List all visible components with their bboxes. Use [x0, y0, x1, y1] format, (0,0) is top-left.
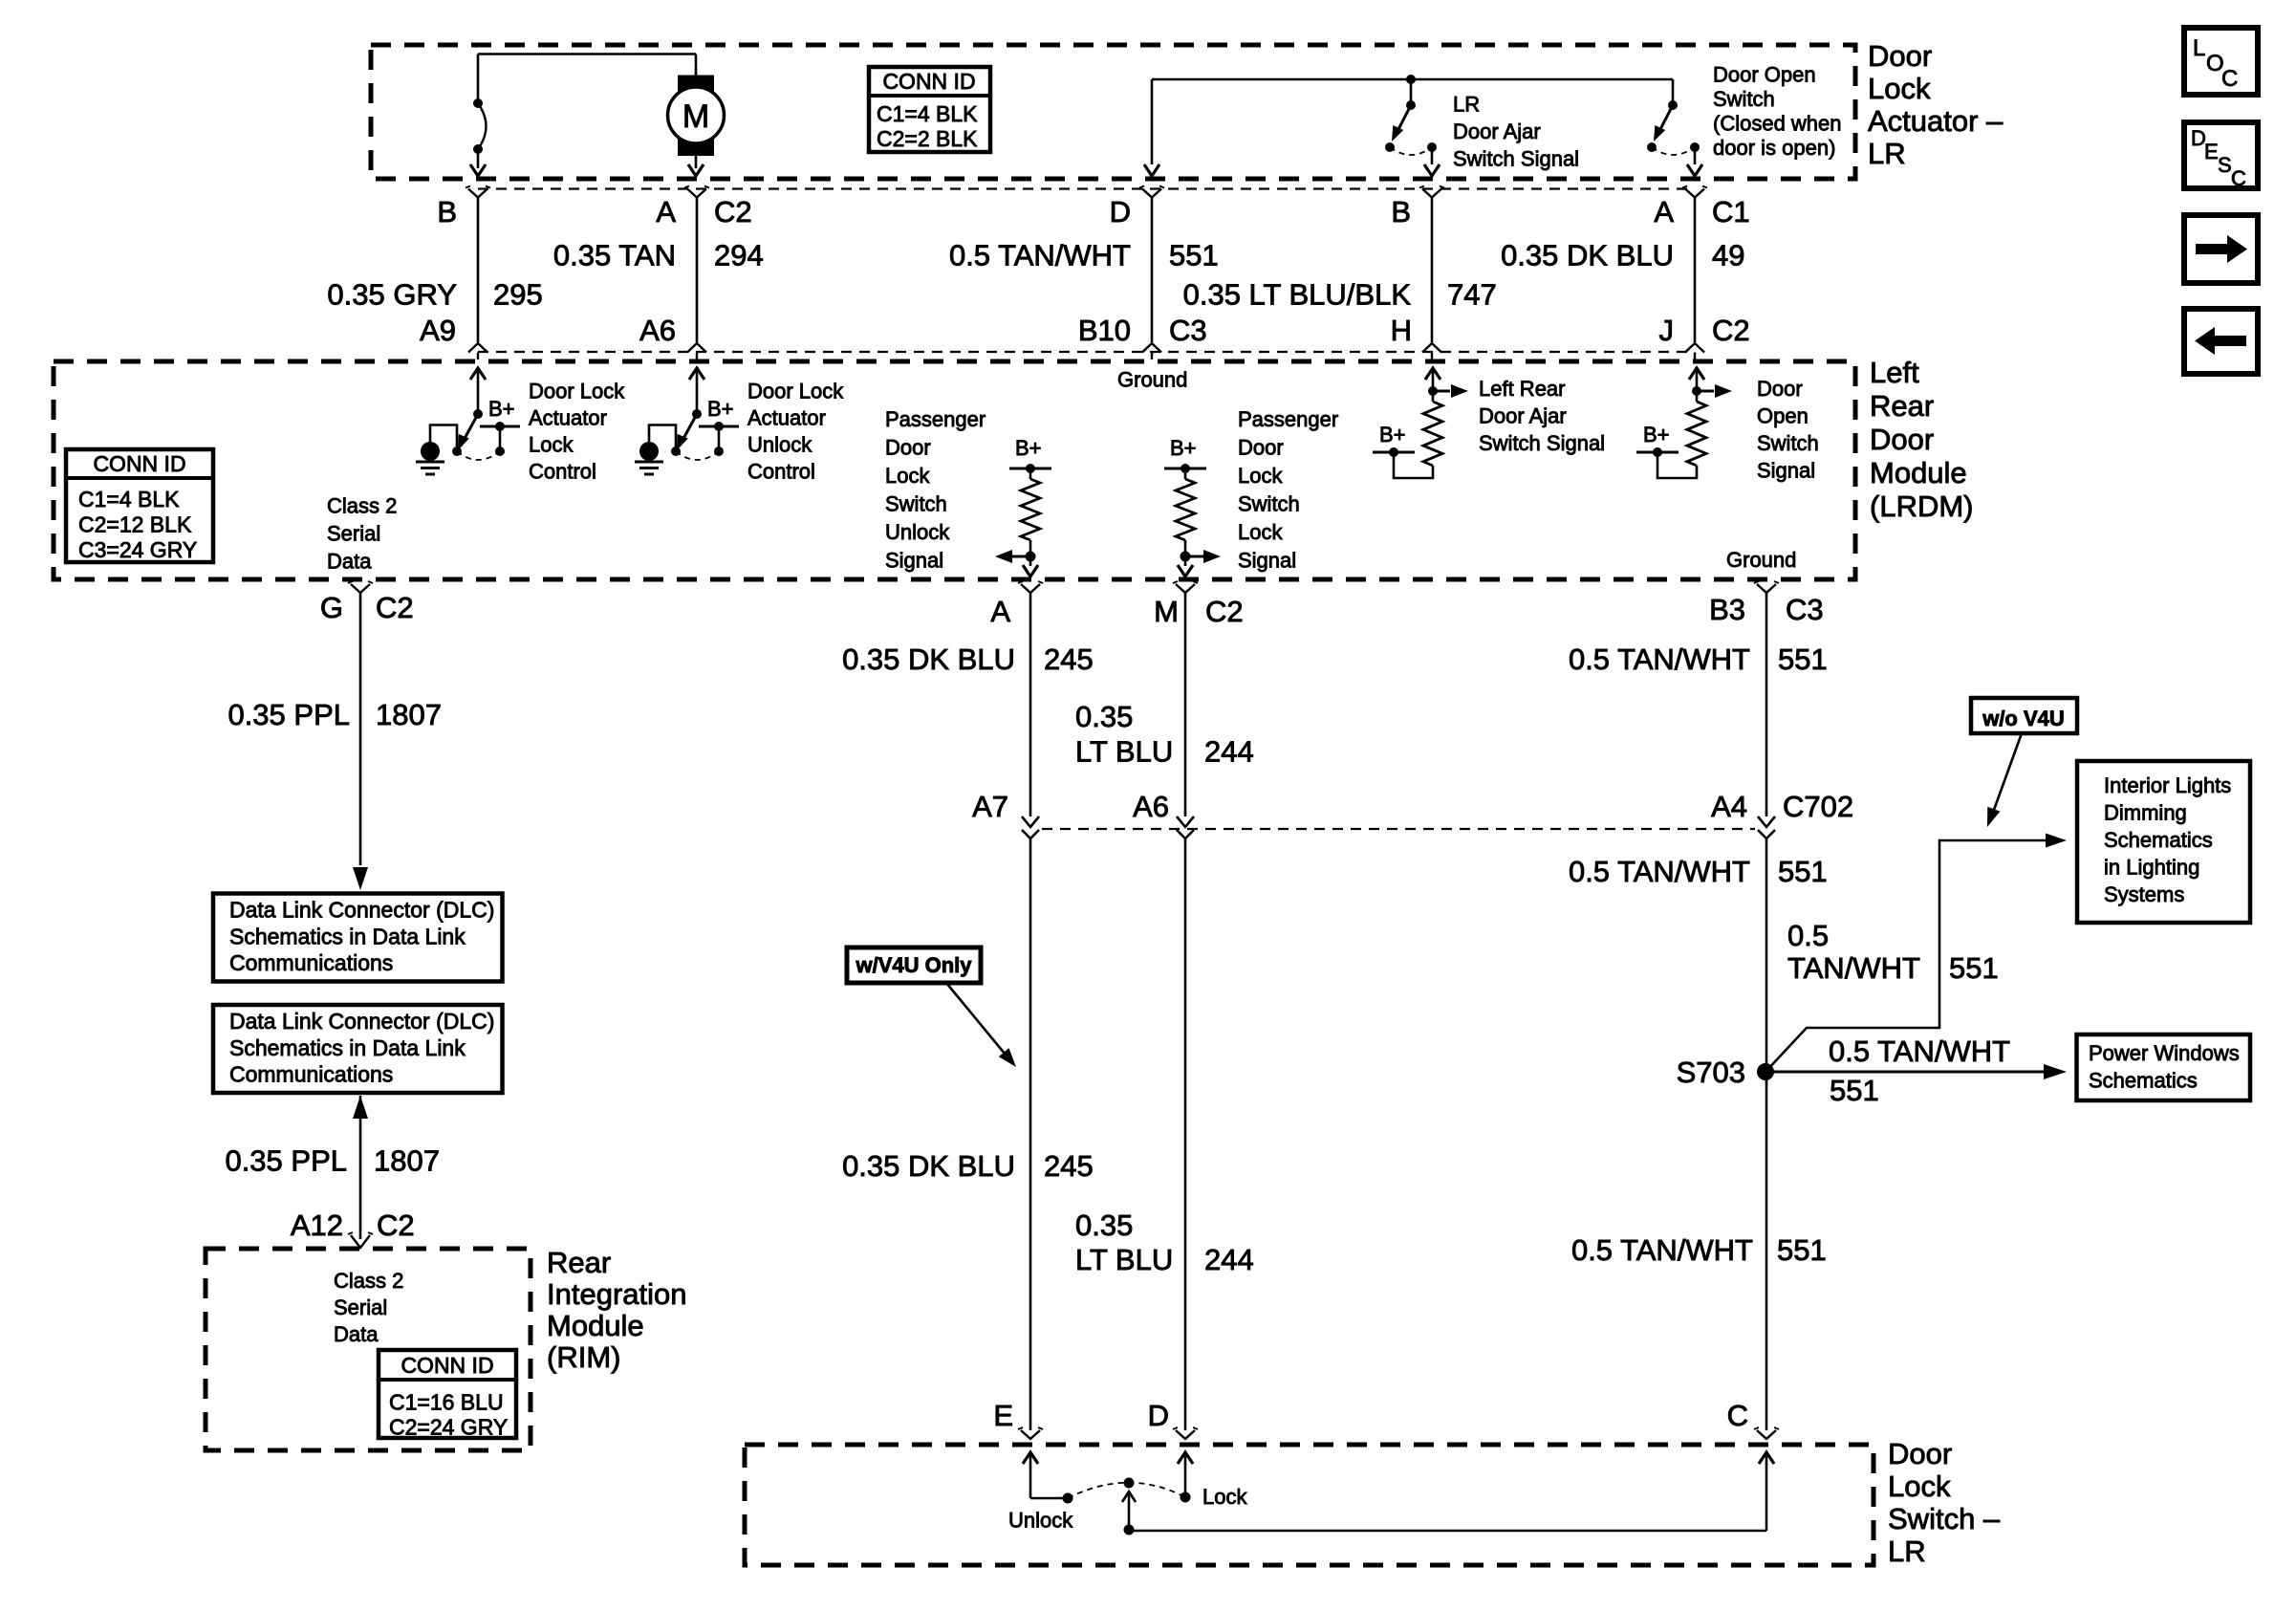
svg-text:Switch: Switch	[1238, 492, 1300, 516]
svg-text:C2=24 GRY: C2=24 GRY	[389, 1415, 508, 1440]
svg-text:Control: Control	[747, 460, 815, 484]
svg-text:Door: Door	[885, 436, 931, 460]
svg-text:C1=4 BLK: C1=4 BLK	[78, 487, 180, 512]
svg-text:D: D	[1148, 1399, 1169, 1432]
svg-text:0.5 TAN/WHT: 0.5 TAN/WHT	[1571, 1233, 1753, 1267]
svg-text:Passenger: Passenger	[885, 407, 986, 431]
svg-text:Lock: Lock	[1238, 464, 1283, 488]
svg-text:A6: A6	[639, 314, 676, 347]
svg-text:C1=4 BLK: C1=4 BLK	[877, 101, 978, 126]
svg-text:0.35 DK BLU: 0.35 DK BLU	[1501, 239, 1674, 272]
svg-text:B+: B+	[1015, 436, 1042, 460]
svg-text:Lock: Lock	[1888, 1469, 1951, 1503]
svg-text:0.35 DK BLU: 0.35 DK BLU	[842, 1149, 1015, 1183]
svg-text:Communications: Communications	[229, 1062, 393, 1087]
svg-text:Interior Lights: Interior Lights	[2104, 773, 2231, 797]
svg-text:J: J	[1659, 314, 1675, 347]
svg-text:Signal: Signal	[885, 549, 943, 573]
svg-text:LR: LR	[1453, 93, 1480, 117]
svg-text:B10: B10	[1078, 314, 1131, 347]
svg-text:Schematics: Schematics	[2089, 1069, 2198, 1093]
svg-text:Left: Left	[1870, 356, 1919, 389]
svg-text:Door: Door	[1757, 377, 1803, 401]
svg-text:551: 551	[1777, 1233, 1827, 1267]
svg-text:295: 295	[493, 278, 543, 312]
svg-text:S703: S703	[1677, 1056, 1745, 1089]
svg-text:LR: LR	[1888, 1535, 1926, 1568]
svg-text:0.35 TAN: 0.35 TAN	[553, 239, 676, 272]
svg-text:Schematics in Data Link: Schematics in Data Link	[229, 1035, 466, 1060]
svg-text:w/V4U Only: w/V4U Only	[855, 953, 972, 977]
svg-text:LR: LR	[1868, 137, 1906, 170]
svg-text:E: E	[2204, 140, 2219, 163]
svg-text:Actuator: Actuator	[747, 406, 826, 430]
svg-text:Rear: Rear	[547, 1246, 611, 1279]
svg-text:Unlock: Unlock	[1008, 1509, 1073, 1533]
svg-text:C3: C3	[1169, 314, 1207, 347]
svg-text:A12: A12	[291, 1208, 343, 1242]
svg-text:Door Ajar: Door Ajar	[1479, 404, 1567, 428]
svg-text:CONN ID: CONN ID	[93, 451, 185, 476]
svg-text:551: 551	[1830, 1074, 1879, 1107]
svg-text:Unlock: Unlock	[747, 433, 812, 457]
svg-text:B: B	[437, 195, 457, 229]
svg-text:Lock: Lock	[1868, 72, 1931, 105]
svg-text:Systems: Systems	[2104, 882, 2184, 906]
svg-text:Switch: Switch	[885, 492, 947, 516]
svg-text:CONN ID: CONN ID	[882, 69, 975, 94]
svg-text:0.5 TAN/WHT: 0.5 TAN/WHT	[949, 239, 1131, 272]
svg-text:551: 551	[1169, 239, 1219, 272]
svg-text:C: C	[2231, 166, 2246, 190]
svg-text:Data: Data	[327, 550, 372, 574]
svg-text:551: 551	[1778, 642, 1828, 676]
svg-text:1807: 1807	[374, 1144, 440, 1178]
svg-text:A4: A4	[1711, 790, 1747, 823]
svg-text:0.35 GRY: 0.35 GRY	[327, 278, 457, 312]
svg-text:B+: B+	[1643, 423, 1670, 446]
svg-text:TAN/WHT: TAN/WHT	[1787, 951, 1920, 985]
svg-text:Class 2: Class 2	[334, 1269, 403, 1293]
svg-text:Door: Door	[1868, 39, 1932, 73]
svg-text:Lock: Lock	[529, 433, 574, 457]
svg-text:LT BLU: LT BLU	[1075, 1243, 1173, 1276]
svg-text:747: 747	[1447, 278, 1497, 312]
svg-text:A9: A9	[420, 314, 456, 347]
svg-text:Door: Door	[1888, 1437, 1952, 1470]
svg-text:245: 245	[1044, 1149, 1094, 1183]
svg-text:0.35: 0.35	[1075, 1208, 1133, 1242]
svg-text:Lock: Lock	[1202, 1485, 1247, 1509]
svg-text:C2: C2	[714, 195, 752, 229]
svg-text:C2: C2	[1712, 314, 1750, 347]
svg-text:S: S	[2218, 153, 2232, 177]
svg-text:0.35 DK BLU: 0.35 DK BLU	[842, 642, 1015, 676]
svg-text:0.35 LT BLU/BLK: 0.35 LT BLU/BLK	[1183, 278, 1412, 312]
svg-text:C2: C2	[1205, 595, 1244, 628]
svg-text:Data: Data	[334, 1322, 379, 1346]
svg-text:Ground: Ground	[1117, 368, 1187, 392]
svg-text:B+: B+	[1379, 423, 1406, 446]
svg-text:Passenger: Passenger	[1238, 407, 1338, 431]
svg-text:Door: Door	[1870, 423, 1934, 456]
svg-text:0.35 PPL: 0.35 PPL	[227, 698, 350, 731]
svg-text:L: L	[2193, 35, 2205, 61]
svg-text:551: 551	[1778, 855, 1828, 888]
svg-text:C2=12 BLK: C2=12 BLK	[78, 512, 192, 537]
svg-text:Module: Module	[1870, 456, 1967, 490]
svg-text:Class 2: Class 2	[327, 494, 397, 518]
svg-text:B: B	[1391, 195, 1411, 229]
svg-text:C3=24 GRY: C3=24 GRY	[78, 537, 197, 562]
svg-text:A: A	[990, 595, 1010, 628]
svg-text:551: 551	[1949, 951, 1999, 985]
svg-text:0.5: 0.5	[1787, 919, 1829, 952]
svg-text:A6: A6	[1133, 790, 1169, 823]
svg-text:C3: C3	[1786, 593, 1824, 626]
svg-text:245: 245	[1044, 642, 1094, 676]
svg-text:1807: 1807	[376, 698, 442, 731]
svg-text:Dimming: Dimming	[2104, 801, 2187, 825]
svg-text:Lock: Lock	[1238, 520, 1283, 544]
svg-text:Schematics in Data Link: Schematics in Data Link	[229, 924, 466, 948]
svg-text:B+: B+	[1170, 436, 1197, 460]
svg-text:A7: A7	[972, 790, 1008, 823]
svg-text:244: 244	[1204, 735, 1254, 769]
svg-text:0.5 TAN/WHT: 0.5 TAN/WHT	[1569, 855, 1750, 888]
svg-text:Integration: Integration	[547, 1277, 687, 1311]
svg-text:Signal: Signal	[1757, 459, 1815, 483]
svg-text:A: A	[656, 195, 676, 229]
svg-text:Door Lock: Door Lock	[529, 380, 625, 403]
svg-text:C: C	[1727, 1399, 1748, 1432]
svg-text:Data Link Connector (DLC): Data Link Connector (DLC)	[229, 1009, 494, 1034]
svg-text:Switch: Switch	[1713, 87, 1775, 111]
svg-text:Door Lock: Door Lock	[747, 380, 844, 403]
svg-text:Module: Module	[547, 1309, 644, 1342]
svg-text:(RIM): (RIM)	[547, 1340, 620, 1374]
svg-text:Lock: Lock	[885, 464, 930, 488]
svg-text:0.5 TAN/WHT: 0.5 TAN/WHT	[1829, 1034, 2010, 1068]
svg-text:D: D	[1110, 195, 1131, 229]
svg-text:Door Open: Door Open	[1713, 63, 1816, 87]
svg-text:Door Ajar: Door Ajar	[1453, 120, 1541, 143]
svg-text:H: H	[1391, 314, 1412, 347]
svg-text:244: 244	[1204, 1243, 1254, 1276]
svg-text:0.35 PPL: 0.35 PPL	[225, 1144, 347, 1178]
svg-text:C2: C2	[377, 1208, 415, 1242]
svg-text:Signal: Signal	[1238, 549, 1296, 573]
svg-text:Serial: Serial	[334, 1295, 387, 1319]
svg-text:Open: Open	[1757, 404, 1809, 428]
svg-text:294: 294	[714, 239, 764, 272]
svg-text:0.35: 0.35	[1075, 700, 1133, 733]
svg-text:C1: C1	[1712, 195, 1750, 229]
svg-text:CONN ID: CONN ID	[401, 1353, 493, 1378]
svg-text:B+: B+	[488, 397, 515, 421]
svg-text:Power Windows: Power Windows	[2089, 1041, 2240, 1065]
svg-text:LT BLU: LT BLU	[1075, 735, 1173, 769]
svg-text:M: M	[682, 98, 709, 135]
svg-text:Switch Signal: Switch Signal	[1479, 431, 1605, 455]
svg-text:Actuator: Actuator	[529, 406, 607, 430]
svg-text:Serial: Serial	[327, 522, 380, 546]
svg-text:C2=2 BLK: C2=2 BLK	[877, 126, 978, 151]
svg-text:E: E	[993, 1399, 1013, 1432]
svg-text:Data Link Connector (DLC): Data Link Connector (DLC)	[229, 898, 494, 923]
svg-text:C: C	[2221, 66, 2238, 92]
svg-text:Switch: Switch	[1757, 431, 1819, 455]
svg-text:Rear: Rear	[1870, 389, 1934, 423]
svg-text:w/o V4U: w/o V4U	[1982, 707, 2065, 730]
svg-text:Communications: Communications	[229, 950, 393, 975]
svg-text:C1=16 BLU: C1=16 BLU	[389, 1390, 504, 1415]
svg-text:(Closed when: (Closed when	[1713, 112, 1842, 136]
svg-text:Unlock: Unlock	[885, 520, 950, 544]
svg-text:B+: B+	[707, 397, 734, 421]
svg-text:Left Rear: Left Rear	[1479, 377, 1566, 401]
svg-text:Actuator –: Actuator –	[1868, 104, 2004, 138]
svg-text:C2: C2	[376, 591, 414, 624]
svg-text:C702: C702	[1783, 790, 1853, 823]
svg-text:G: G	[320, 591, 343, 624]
svg-text:B3: B3	[1709, 593, 1745, 626]
svg-text:Door: Door	[1238, 436, 1284, 460]
svg-text:Ground: Ground	[1726, 548, 1796, 572]
svg-text:Schematics: Schematics	[2104, 828, 2213, 852]
svg-text:door is open): door is open)	[1713, 136, 1835, 160]
svg-text:A: A	[1654, 195, 1674, 229]
svg-text:0.5 TAN/WHT: 0.5 TAN/WHT	[1569, 642, 1750, 676]
svg-text:Switch Signal: Switch Signal	[1453, 147, 1579, 171]
svg-text:in Lighting: in Lighting	[2104, 856, 2199, 880]
svg-text:Control: Control	[529, 460, 596, 484]
svg-text:49: 49	[1712, 239, 1744, 272]
svg-text:Switch –: Switch –	[1888, 1502, 2001, 1535]
svg-text:M: M	[1154, 595, 1179, 628]
svg-text:(LRDM): (LRDM)	[1870, 490, 1974, 523]
